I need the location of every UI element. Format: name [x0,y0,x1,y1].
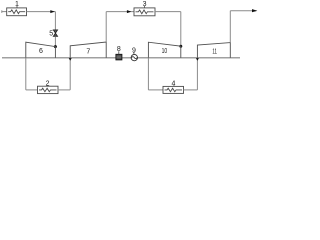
wire heater1 to valve corner [27,12,56,30]
heat exchanger 3 (box with zigzag) [134,8,155,16]
wire label-3 tick [144,6,146,8]
turbine 10 (trapezoid) [148,42,180,58]
wire label-2 tick [47,84,49,87]
turbine 7 (trapezoid) [70,42,106,58]
svg-text:6: 6 [39,48,43,55]
wire turbine 10 exhaust down to heater 4 [148,58,163,90]
gearbox 8 (hatched box on shaft) [116,54,122,60]
svg-text:7: 7 [86,48,90,55]
arrowhead into corner [50,10,55,13]
turbine 6 (trapezoid) [26,42,56,58]
svg-text:5: 5 [49,30,53,37]
generator 9 (circle with wave) [131,54,137,60]
arrowhead output [252,9,257,12]
wire heater 3 right and down to turbine 10 [155,12,181,47]
valve 5 (bowtie on vertical pipe) [53,30,57,36]
wire main shaft line [2,57,240,59]
arrowhead into heater 3 [127,10,131,13]
wire label-1 tick [16,6,18,8]
wire label-9 tick [133,53,135,55]
svg-text:2: 2 [46,80,50,87]
wire label-4 tick [172,85,174,88]
heat exchanger 2 (box with zigzag) [38,86,59,93]
wire turbine 7 outlet up and right to heater 3 [106,12,134,42]
wire label-8 tick [118,51,120,54]
wire turbine 11 outlet up and right (output) [230,11,256,43]
wire inlet line to heater 1 [2,10,7,13]
wire valve to turbine 6 inlet [54,36,56,46]
wire into heater 2 left [26,89,38,91]
node junction dot at turbine 6 inlet [54,45,57,48]
svg-text:10: 10 [162,48,168,55]
arrowhead on pipe at shaft crossing [196,58,199,61]
wire turbine 6 exhaust down to heater 2 [25,58,27,90]
arrowhead on pipe at shaft crossing [69,58,72,61]
heat exchanger 4 (box with zigzag) [163,86,184,93]
wire heater 4 right up to turbine 11 [184,58,198,90]
svg-text:4: 4 [171,81,175,88]
node junction dot at turbine 10 inlet [179,45,182,48]
wire heater 2 right up to turbine 7 [58,58,70,90]
turbine 11 (trapezoid) [197,43,230,58]
svg-text:11: 11 [212,48,217,55]
heat exchanger 1 (box with zigzag) [7,8,27,16]
